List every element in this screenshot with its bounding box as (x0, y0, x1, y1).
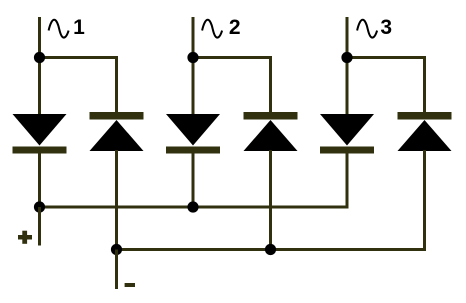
wire phase 2 branch vertical to D4 (269, 56, 272, 113)
wire phase 1 branch horizontal (40, 56, 119, 59)
wire phase 3 vertical lead (346, 17, 349, 115)
label minus terminal (125, 283, 135, 287)
label 2 (229, 16, 241, 39)
wire phase 3 branch vertical to D6 (423, 56, 426, 113)
svg-text:3: 3 (380, 16, 392, 39)
wire plus rail horizontal (40, 206, 349, 209)
wire D6 anode to minus rail (423, 150, 426, 251)
label 3 (380, 16, 392, 39)
diode D5 (positive group, phase 3) (320, 114, 374, 154)
AC source symbol phase 2 (sine) (202, 20, 222, 38)
wire phase 1 branch vertical to D2 (115, 56, 118, 113)
wire D2 anode to minus rail (crosses plus rail) (115, 150, 118, 251)
wire minus rail horizontal (117, 248, 427, 251)
junction dot phase 2 node (187, 52, 198, 63)
svg-text:1: 1 (73, 16, 85, 39)
wire D5 cathode to plus rail (346, 153, 349, 209)
AC source symbol phase 3 (sine) (357, 20, 377, 38)
diode D2 (negative group, phase 1) (90, 112, 144, 151)
wire phase 1 vertical lead (38, 17, 41, 115)
diode D3 (positive group, phase 2) (166, 114, 220, 154)
label plus terminal (18, 231, 32, 244)
junction dot plus rail at D1 (34, 201, 45, 212)
wire D1 cathode to plus rail (38, 153, 41, 209)
junction dot minus rail at D4 (265, 244, 276, 255)
wire phase 2 branch horizontal (193, 56, 272, 59)
junction dot phase 1 node (34, 52, 45, 63)
AC source symbol phase 1 (sine) (49, 20, 69, 38)
diode D4 (negative group, phase 2) (244, 112, 298, 151)
diode D1 (positive group, phase 1) (13, 114, 67, 154)
wire phase 3 branch horizontal (347, 56, 426, 59)
wire D4 anode to minus rail (crosses plus rail) (269, 150, 272, 251)
wire plus output lead (38, 207, 41, 246)
junction dot plus rail at D3 (187, 201, 198, 212)
junction dot minus rail at D2 (111, 244, 122, 255)
svg-text:2: 2 (229, 16, 241, 39)
diode D6 (negative group, phase 3) (398, 112, 452, 151)
junction dot phase 3 node (341, 52, 352, 63)
wire phase 2 vertical lead (192, 17, 195, 115)
wire minus output lead (115, 250, 118, 290)
label 1 (73, 16, 85, 39)
wire D3 cathode to plus rail (192, 153, 195, 209)
